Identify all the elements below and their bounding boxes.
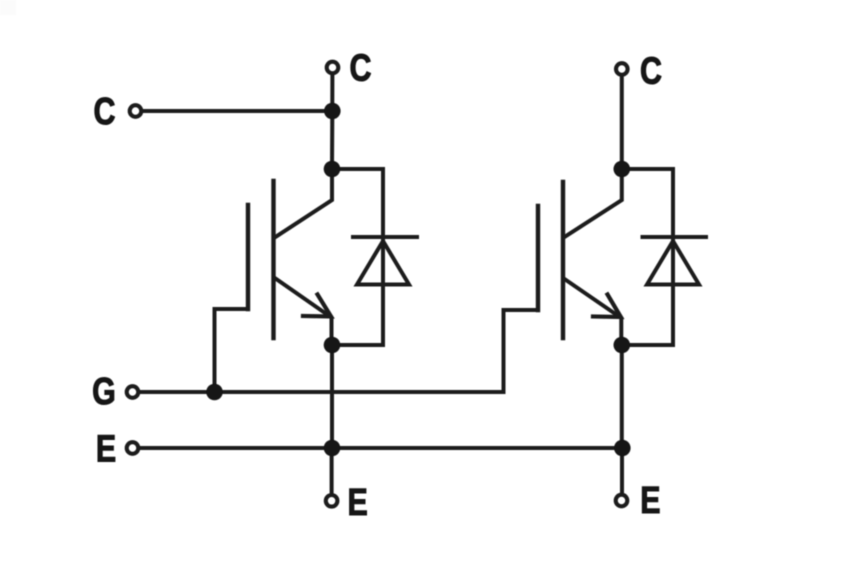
svg-text:C: C [94,91,116,133]
terminal C (Q2 collector pin) [616,63,628,75]
terminal C (Q1 collector pin) [327,62,339,74]
IGBT Q2 collector lead [565,169,622,237]
wire diode D2 branch [622,169,673,345]
IGBT Q2 emitter arrow [593,295,621,318]
svg-text:G: G [92,371,116,413]
svg-text:C: C [640,50,662,92]
junction diode D2 cathode tap [614,161,631,178]
IGBT Q1 gate bar [246,205,250,309]
corner smudge [0,0,16,15]
IGBT Q1 body bar [271,181,275,338]
wire collector node to diode tap [330,111,334,169]
IGBT Q2 emitter lead [565,279,622,345]
IGBT Q2 gate lead [504,310,539,392]
svg-text:E: E [96,428,116,470]
IGBT Q1 gate lead [215,309,249,392]
wire diode D1 branch [332,169,383,345]
terminal E (left emitter pin) [127,442,139,454]
svg-text:C: C [350,47,372,89]
junction E bus / Q2 emitter [614,440,631,457]
terminal G pin [127,386,139,398]
junction G bus / Q1 gate [206,384,223,401]
svg-text:E: E [640,480,660,522]
wire Q2 C terminal down to diode tap [620,76,624,169]
terminal E (Q1 emitter pin) [326,495,338,507]
IGBT Q1 collector lead [276,169,333,237]
wire Q1 emitter to E terminal [330,448,334,494]
wire Q1 C terminal down [330,75,334,112]
wire Q2 emitter node to E bus [620,345,624,448]
junction diode D2 anode / Q2 emitter [614,337,631,354]
diode D1 [353,237,417,285]
IGBT Q2 gate bar [536,206,540,310]
junction collector node 1 [324,103,341,120]
wire Q1 emitter node to E bus [330,345,334,448]
wire G bus [139,390,504,394]
junction diode D1 anode / Q1 emitter [324,337,341,354]
wire E bus [139,446,622,450]
IGBT Q1 emitter arrow [303,295,331,317]
svg-text:E: E [347,482,367,524]
IGBT Q1 emitter lead [276,279,332,346]
junction E bus / Q1 emitter [324,440,341,457]
terminal C (left collector pin) [130,105,142,117]
junction diode D1 cathode tap [324,161,341,178]
IGBT Q2 body bar [561,182,565,338]
wire C terminal to collector node [143,109,333,113]
diode D2 [643,237,707,285]
wire Q2 emitter to E terminal [620,448,624,494]
terminal E (Q2 emitter pin) [616,495,628,507]
